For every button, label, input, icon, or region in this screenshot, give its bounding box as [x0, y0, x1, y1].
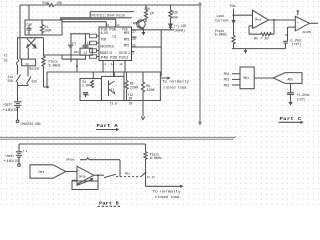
feedback resistor Av=10 — [261, 20, 275, 36]
svg-text:(+) LED: (+) LED — [174, 24, 187, 28]
wire FB1 dashed — [116, 176, 141, 178]
wire horizontal y37.7 — [18, 37, 44, 39]
svg-text:2.2M: 2.2M — [82, 84, 89, 88]
wire PD4 — [232, 73, 240, 75]
svg-text:OP10a: OP10a — [66, 158, 75, 161]
svg-text:-1 . 14 . 18: -1 . 14 . 18 — [103, 63, 124, 66]
piezo P3 column — [144, 144, 147, 177]
LED indicator column — [169, 5, 172, 24]
svg-text:AMP: AMP — [133, 22, 139, 26]
power stub U3 — [296, 11, 299, 15]
svg-text:26: 26 — [132, 37, 136, 41]
transistor Q1 — [27, 38, 36, 59]
svg-text:OPa1: OPa1 — [255, 19, 262, 22]
sub box R — [124, 72, 160, 101]
capacitor C6 ref — [287, 93, 294, 102]
svg-text:220K: 220K — [130, 85, 139, 89]
svg-text:OP1A: OP1A — [79, 176, 86, 179]
switch S3 — [141, 172, 146, 177]
wire collector to R20 — [145, 18, 147, 21]
svg-text:Part B: Part B — [99, 200, 119, 206]
wire comparator output — [309, 22, 318, 24]
wire mode line — [80, 158, 120, 177]
svg-text:+batt: +batt — [3, 103, 12, 107]
arrow load current — [232, 21, 235, 24]
junction node piezo input — [233, 14, 235, 16]
resistor R8 — [141, 72, 144, 101]
wire top supply rail Part A — [20, 4, 199, 6]
bus wire 3 — [62, 22, 106, 27]
MUX box — [240, 67, 254, 89]
svg-text:+batt: +batt — [5, 154, 14, 158]
svg-text:+18V: +18V — [3, 108, 14, 112]
separator rule — [0, 137, 236, 140]
wire op-amp output — [94, 174, 104, 176]
svg-text:6.8KHz: 6.8KHz — [49, 63, 61, 67]
wire piezo top to crystal area — [44, 55, 87, 59]
switch S2 — [104, 174, 116, 177]
ground under AMP — [143, 30, 145, 32]
wire PD2 — [232, 84, 240, 86]
svg-text:Load: Load — [217, 14, 224, 18]
svg-text:MP3: MP3 — [124, 31, 130, 35]
Part B dashed underline — [98, 205, 121, 207]
svg-text:To normally: To normally — [153, 189, 181, 193]
svg-text:C1: C1 — [72, 41, 76, 45]
svg-text:Av = 10: Av = 10 — [254, 36, 269, 40]
svg-text:L1: L1 — [84, 50, 88, 54]
ground triangle AMP — [142, 32, 146, 35]
svg-text:R10: R10 — [43, 1, 49, 5]
wire pin25 to load — [135, 30, 161, 77]
op-amp U4 — [77, 166, 94, 184]
svg-text:ADC: ADC — [288, 78, 294, 82]
svg-text:-: - — [78, 181, 80, 184]
resistor R20 — [144, 5, 147, 22]
feedback loop potentiometer — [97, 175, 99, 189]
svg-text:MP1: MP1 — [124, 44, 130, 48]
battery B1 — [14, 102, 22, 120]
junction node opamp3 out — [97, 174, 99, 176]
capacitor C2 — [83, 34, 89, 48]
wire ADC ref — [290, 83, 292, 92]
svg-text:PD4: PD4 — [224, 72, 230, 76]
crystal X1 — [80, 48, 92, 55]
svg-text:ACJM1: ACJM1 — [303, 31, 312, 34]
op-amp U2 — [253, 10, 269, 28]
wire op-amp output — [269, 19, 296, 21]
ground symbol — [245, 49, 247, 50]
op-amp comparator U3 — [295, 16, 309, 31]
svg-text:DECOUPLE: DECOUPLE — [100, 44, 114, 48]
svg-text:+: + — [78, 169, 80, 172]
svg-text:+: + — [297, 21, 299, 24]
IC left connector boxes — [90, 34, 97, 38]
detector block — [30, 165, 66, 178]
svg-text:FB2: FB2 — [74, 51, 79, 54]
resistor R10 — [47, 3, 54, 6]
svg-text:100mA): 100mA) — [174, 29, 185, 33]
svg-text:Current: Current — [215, 19, 229, 23]
svg-text:25: 25 — [132, 43, 136, 47]
svg-text:MU1: MU1 — [244, 76, 250, 80]
resistor R4 — [91, 80, 94, 88]
wire to load arrow — [146, 177, 183, 188]
junction node opamp out — [273, 19, 275, 21]
sub box M — [102, 76, 125, 100]
svg-text:220K: 220K — [146, 88, 155, 92]
svg-text:7.2: 7.2 — [23, 150, 28, 153]
svg-text:INT/BT-1: INT/BT-1 — [119, 51, 131, 55]
node box C10 R1 — [25, 20, 62, 35]
svg-text:Part C: Part C — [280, 116, 302, 122]
svg-text:2: 2 — [132, 52, 134, 56]
switch S1b — [18, 66, 32, 86]
ground rail Part C — [232, 48, 286, 50]
svg-text:P2a: P2a — [230, 4, 236, 8]
svg-text:S1b: S1b — [8, 79, 14, 83]
svg-text:T2.A: T2.A — [110, 101, 117, 105]
bus wire 1 — [60, 17, 132, 19]
ground triangle Part C rail — [244, 50, 248, 53]
svg-text:DC: DC — [14, 108, 18, 112]
arrow to normally closed load A — [161, 77, 169, 79]
svg-text:FB1: FB1 — [125, 172, 130, 175]
wire arrow at piezo bottom — [44, 86, 49, 88]
svg-text:(ref): (ref) — [292, 42, 301, 46]
IC bottom pin stubs — [103, 61, 125, 77]
svg-text:6.8KHz: 6.8KHz — [150, 156, 162, 160]
battery B2 — [16, 144, 22, 164]
svg-text:FL: FL — [111, 88, 115, 92]
svg-text:S4, S3: S4, S3 — [147, 176, 155, 179]
svg-text:PD3: PD3 — [224, 78, 230, 82]
lower rail Part A — [47, 72, 160, 88]
part number overline — [90, 12, 134, 18]
wire left rail down from top — [19, 5, 21, 38]
svg-text:A-ED: A-ED — [101, 31, 108, 35]
svg-text:OTP/ETC(1) ED+AP U4(2)B: OTP/ETC(1) ED+AP U4(2)B — [91, 14, 125, 18]
svg-text:P4B P2B P3C1: P4B P2B P3C1 — [101, 55, 129, 59]
wire inverting input — [249, 26, 261, 34]
svg-text:closed load.: closed load. — [155, 195, 181, 199]
junction node crystal — [76, 65, 78, 67]
wire noninverting input — [234, 14, 253, 16]
wire MUX out — [254, 77, 273, 79]
svg-text:12: 12 — [117, 24, 121, 27]
zener 72V — [83, 93, 88, 98]
svg-text:MP2: MP2 — [124, 37, 130, 41]
resistor R1 — [40, 20, 43, 35]
ground triangle ADC ref — [288, 102, 292, 106]
wire P2a input — [233, 9, 235, 36]
sub box L — [80, 79, 102, 101]
svg-text:10K: 10K — [57, 1, 63, 5]
svg-text:6.8KHz: 6.8KHz — [215, 33, 228, 37]
transistor Q2 — [109, 81, 115, 97]
svg-text:RESET/S: RESET/S — [100, 51, 112, 55]
svg-text:S1: S1 — [4, 59, 8, 63]
svg-text:72V: 72V — [84, 93, 90, 97]
terminal circle B — [18, 164, 21, 167]
wire pin27 LED net — [135, 29, 174, 31]
IC U1 — [99, 27, 132, 61]
Part C underline arrow — [279, 121, 303, 123]
svg-text:C5: C5 — [285, 34, 289, 37]
capacitor C1 — [68, 45, 73, 62]
wire crystal bottom — [62, 55, 86, 59]
terminal circle — [16, 120, 19, 123]
wire rail to box top — [28, 5, 30, 20]
svg-text:100: 100 — [172, 15, 178, 19]
resistor R6 — [125, 72, 128, 101]
svg-text:R20: R20 — [145, 7, 151, 11]
capacitor C10 — [27, 25, 32, 36]
LED D2 — [169, 24, 172, 30]
battery rail Part B — [19, 143, 146, 145]
svg-text:Part A: Part A — [97, 123, 119, 129]
svg-text:27: 27 — [132, 30, 136, 34]
svg-text:U1: U1 — [113, 34, 117, 38]
svg-text:S1b: S1b — [32, 80, 38, 84]
buzzer K1 — [22, 59, 36, 66]
bus wire 2 — [60, 19, 116, 27]
svg-text:C2: C2 — [87, 42, 91, 46]
wire into relay — [20, 38, 22, 59]
svg-text:1M: 1M — [129, 101, 133, 105]
svg-text:(ref): (ref) — [297, 97, 306, 101]
wire reference input — [288, 27, 296, 41]
capacitor C5 ref — [283, 41, 288, 48]
section divider A/C — [199, 3, 201, 124]
svg-text:C10: C10 — [26, 23, 32, 27]
switch S1a — [16, 66, 21, 101]
transistor AMP — [137, 20, 145, 28]
svg-text:PD2: PD2 — [224, 83, 230, 87]
wire node to lower rail — [76, 59, 78, 72]
svg-text:Det: Det — [39, 171, 45, 175]
svg-text:1M: 1M — [128, 97, 132, 101]
ADC flag — [273, 73, 302, 84]
wiper arrow — [77, 178, 93, 185]
piezo P2 — [232, 35, 235, 48]
fuse F1 — [16, 38, 18, 66]
svg-text:F1: F1 — [4, 54, 8, 58]
svg-text:CHASSIS GND: CHASSIS GND — [21, 122, 41, 126]
svg-text:DC: DC — [15, 159, 19, 163]
svg-text:13: 13 — [106, 24, 110, 27]
wire R8 down arrow — [141, 101, 145, 120]
piezo element column — [42, 38, 45, 87]
svg-text:closed load.: closed load. — [163, 86, 188, 90]
svg-text:1M: 1M — [150, 12, 154, 16]
wire PD3 — [232, 78, 240, 80]
svg-text:To normally: To normally — [162, 80, 189, 84]
svg-text:P3D: P3D — [101, 37, 107, 41]
IC right pin stubs — [132, 30, 137, 52]
svg-text:R25: R25 — [172, 10, 178, 14]
wire det to op-amp — [66, 171, 77, 173]
svg-text:D4: D4 — [33, 46, 37, 50]
wire crystal to connector — [70, 34, 90, 45]
svg-text:+18V: +18V — [4, 159, 15, 163]
Part A underline arrow — [96, 128, 118, 130]
svg-text:100K: 100K — [44, 29, 51, 33]
svg-text:Buzzer: Buzzer — [29, 67, 40, 71]
